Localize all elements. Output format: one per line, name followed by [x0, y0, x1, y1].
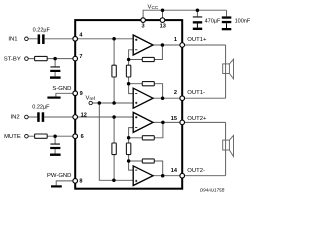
ground S-GND under ST-BY cap [50, 76, 61, 78]
resistor R-C (vertical, IN2 divider) [112, 143, 116, 155]
wire OUT1- to speaker [184, 97, 225, 99]
wire MUTE row [28, 135, 75, 137]
svg-text:9: 9 [80, 91, 83, 97]
capacitor C2 0.22uF IN2 [37, 112, 44, 122]
svg-text:OUT2+: OUT2+ [187, 116, 207, 122]
wire Vref row [92, 102, 133, 104]
svg-text:IN1: IN1 [8, 36, 17, 42]
pin 6 [73, 134, 78, 139]
junction ST-BY cap [53, 57, 57, 61]
wire Vcc rail [143, 10, 226, 20]
node FB2 [127, 82, 131, 86]
wire amp1 inverting input [129, 50, 134, 60]
wire node3 to R-D [128, 138, 130, 143]
junction amp1 output [161, 43, 165, 47]
svg-text:OUT2-: OUT2- [187, 168, 205, 174]
pin 4 [73, 37, 78, 42]
svg-text:1: 1 [174, 37, 177, 43]
svg-text:3: 3 [141, 23, 144, 29]
op-amp A2 [133, 88, 153, 108]
wire R-C bottom [113, 155, 115, 181]
svg-text:2: 2 [174, 90, 177, 96]
junction IN1 / R-A [112, 37, 116, 41]
svg-text:MUTE: MUTE [4, 134, 21, 140]
wire amp2 output [153, 97, 180, 99]
svg-text:OUT1-: OUT1- [187, 90, 205, 96]
wire Vref vertical rail [99, 103, 133, 180]
node FB4 [127, 159, 131, 163]
svg-text:S-GND: S-GND [52, 86, 71, 92]
speaker LS1 [223, 59, 234, 79]
wire IN1 row [28, 38, 133, 40]
svg-text:0.22µF: 0.22µF [33, 28, 51, 34]
svg-text:100nF: 100nF [235, 19, 251, 25]
pin 7 [73, 56, 78, 61]
resistor ST-BY [35, 56, 48, 60]
junction Vref / R-A [112, 101, 116, 105]
svg-text:D94AU175B: D94AU175B [200, 187, 224, 192]
pin 13 [160, 18, 165, 23]
wire R-D to node4 [128, 155, 130, 161]
wire amp4 inverting input [129, 161, 134, 170]
svg-text:VCC: VCC [148, 4, 159, 10]
resistor feedback 1 [142, 57, 154, 61]
wire OUT2+ to speaker [184, 121, 225, 123]
capacitor 470uF [193, 16, 202, 30]
junction amp2 output [161, 96, 165, 100]
node FB1 [127, 58, 131, 62]
wire R-A bottom [113, 77, 115, 103]
wire R-B to node2 [128, 77, 130, 84]
svg-text:4: 4 [79, 32, 83, 38]
wire amp4 output [153, 175, 180, 177]
resistor R-A (vertical, IN1 divider) [112, 65, 116, 77]
wire ST-BY cap drop [54, 59, 56, 77]
junction IN2 / R-C [112, 115, 116, 119]
svg-text:OUT1+: OUT1+ [187, 37, 207, 43]
svg-text:ST-BY: ST-BY [4, 57, 21, 63]
terminal Vref [89, 101, 92, 104]
wire IN2 row [28, 116, 133, 118]
terminal IN1 [25, 37, 29, 41]
junction MUTE cap [53, 134, 57, 138]
capacitor 100nF [222, 16, 232, 30]
capacitor MUTE [50, 144, 60, 150]
svg-text:8: 8 [79, 179, 82, 185]
svg-text:Vref: Vref [86, 95, 96, 101]
terminal ST-BY [25, 57, 29, 61]
wire speaker2 feed [225, 122, 227, 175]
pin 9 [73, 91, 78, 96]
op-amp A1 [133, 35, 153, 55]
resistor R-B (vertical, feedback chain 1) [126, 65, 130, 77]
wire 470uF stub [196, 10, 198, 16]
wire MUTE cap drop [54, 136, 56, 153]
svg-text:470µF: 470µF [205, 19, 221, 25]
junction amp4 output [161, 174, 165, 178]
pin 2 [180, 96, 185, 101]
wire R-A top [113, 39, 115, 65]
wire amp3 inverting input [129, 128, 134, 138]
junction top rail / 470uF [196, 8, 200, 12]
wire OUT2- to speaker [184, 175, 225, 177]
terminal MUTE [25, 134, 29, 138]
wire amp3 output [153, 121, 180, 123]
svg-text:0.22µF: 0.22µF [32, 105, 50, 111]
pin 15 [180, 120, 185, 125]
ground S-GND [47, 97, 60, 99]
resistor feedback 3 [142, 136, 154, 140]
svg-text:7: 7 [79, 54, 82, 60]
resistor feedback 2 [142, 82, 154, 86]
IC outline U1 [75, 20, 182, 189]
pin 12 [73, 115, 78, 120]
wire speaker1 feed [225, 45, 227, 98]
svg-text:12: 12 [81, 112, 87, 118]
resistor MUTE [35, 134, 48, 138]
capacitor ST-BY [50, 66, 60, 72]
junction bottom rail / R-C [112, 179, 116, 183]
pin 8 [73, 179, 78, 184]
junction top rail / pin13 [161, 8, 165, 12]
wire feedback 1 [129, 45, 163, 60]
ground under MUTE cap [50, 154, 61, 156]
wire ST-BY row [28, 58, 75, 60]
junction amp3 output [161, 121, 165, 125]
speaker LS2 [223, 135, 234, 156]
pin 3 [141, 18, 146, 23]
wire R-C top [113, 117, 115, 143]
svg-text:14: 14 [171, 168, 178, 174]
ground PW-GND [51, 185, 62, 187]
svg-text:6: 6 [81, 134, 84, 140]
node FB3 [127, 136, 131, 140]
wire feedback 4 [129, 161, 163, 176]
wire 100nF stub [226, 10, 228, 16]
op-amp A4 [133, 166, 153, 186]
capacitor C1 0.22uF IN1 [38, 34, 45, 44]
resistor feedback 4 [142, 159, 154, 163]
wire OUT1+ to speaker [184, 44, 225, 46]
svg-text:IN2: IN2 [11, 115, 20, 121]
wire feedback 2 [129, 84, 163, 99]
op-amp A3 [133, 112, 153, 132]
wire PW-GND [56, 181, 75, 185]
svg-text:15: 15 [171, 116, 177, 122]
svg-text:PW-GND: PW-GND [47, 173, 71, 179]
terminal IN2 [25, 115, 29, 119]
svg-text:13: 13 [160, 23, 166, 29]
wire node1 to R-B [128, 60, 130, 66]
pin 14 [180, 173, 185, 178]
wire amp2 inverting input [129, 84, 134, 94]
pin 1 [180, 43, 185, 48]
wire pin13 stub [162, 10, 164, 20]
wire feedback 3 [129, 122, 163, 137]
resistor R-D (vertical, feedback chain 2) [126, 143, 130, 155]
wire amp1 output [153, 44, 180, 46]
wire S-GND [56, 93, 75, 96]
junction Vref / vertical rail [98, 101, 102, 105]
